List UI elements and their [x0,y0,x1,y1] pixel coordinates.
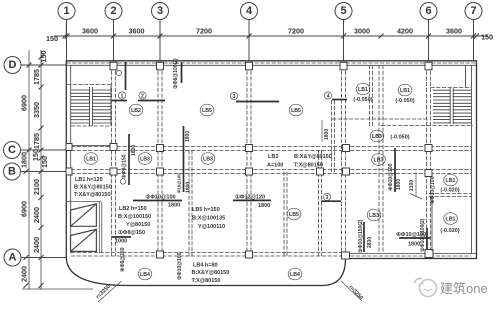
vertical line x=189 [188,150,190,256]
horizontal line y=113.1 [453,112,471,114]
svg-text:6900: 6900 [20,201,29,217]
grid bubble 6 [420,3,437,61]
horizontal line y=100.5 [138,100,165,102]
line (38.5,67.5)-(43.5,62.5) [39,63,44,68]
line (23.5,288)-(28.5,283) [24,283,29,288]
dim tick grid5a [379,34,384,39]
column at (245.5,251) [246,251,253,258]
horizontal line y=106.6 [453,106,471,108]
horizontal line y=90.2 [433,89,450,91]
outer wall perimeter [66,61,476,259]
grid bubble 3 [152,3,169,61]
vertical line x=394 [394,148,396,192]
vertical line x=383 [382,65,384,253]
column at (425,169.5) [425,170,432,177]
vertical line x=89.5 [89,87,91,126]
svg-text:1800: 1800 [186,182,192,193]
vertical line x=364 [363,222,365,252]
vertical line x=318.5 [318,150,320,256]
line (38.5,59.5)-(43.5,54.5) [39,55,44,60]
ramp shapes bottom-left [66,202,102,254]
column at (341.5,252) [342,252,350,259]
horizontal line y=193.5 [429,193,471,195]
line (38.5,288)-(43.5,283) [39,283,44,288]
column at (342.5,168) [343,168,350,175]
horizontal line y=84.5 [67,84,113,86]
svg-text:1: 1 [121,94,124,100]
horizontal line y=200.5 [133,200,182,202]
top dimension numbers [46,27,493,44]
horizontal line y=87.5 [431,87,472,89]
vertical line x=129 [128,134,130,185]
horizontal line y=116.4 [453,115,471,117]
column at (425,144.5) [425,145,432,152]
svg-text:LB3: LB3 [140,157,150,163]
svg-text:①Φ12@120: ①Φ12@120 [235,194,265,201]
horizontal line y=90 [93,89,112,91]
horizontal line y=116.4 [433,115,450,117]
grid bubble 4 [241,3,258,61]
svg-text:4: 4 [327,94,330,100]
horizontal line y=113.1 [433,112,450,114]
horizontal line y=201.5 [66,201,101,203]
horizontal line y=238 [399,237,430,239]
vertical line x=111.5 [111,65,113,256]
dim tick grid5 [341,34,346,39]
path [414,279,422,284]
column at (110,62.3) [110,62,117,70]
column at (340,62.3) [340,62,347,70]
grid bubble 2 [105,3,122,61]
svg-text:1800: 1800 [408,242,420,248]
svg-text:LB4 h=80: LB4 h=80 [193,263,218,269]
r=3250 labels [95,281,364,302]
column at (110,168) [110,168,117,175]
svg-text:LB2 h=150: LB2 h=150 [119,206,147,212]
horizontal line y=65.3 [66,64,476,66]
vertical line x=287 [286,172,288,257]
vertical line x=334.5 [334,100,336,172]
beam label LB1 slab oval 13 [444,174,458,186]
line (38.5,89.5)-(43.5,84.5) [39,85,44,90]
svg-text:150: 150 [46,34,58,43]
vertical line x=29 [28,50,30,290]
svg-text:LB5: LB5 [202,108,212,114]
svg-text:3: 3 [326,195,329,201]
horizontal line y=150.5 [71,150,471,152]
beam label LB3 slab oval 9 [138,153,152,165]
left dimension chains [22,50,93,290]
grid bubble 1 [58,3,75,61]
svg-text:1800: 1800 [324,129,330,140]
horizontal line y=109.8 [453,109,471,111]
svg-text:②Φ10@100: ②Φ10@100 [146,194,176,201]
beam label LB1 slab oval 8 [84,153,98,165]
svg-text:T:X&Y@80150: T:X&Y@80150 [74,192,111,198]
level notes [353,97,459,234]
vertical line x=111 [110,86,112,126]
horizontal line y=99.5 [332,99,347,101]
column at (156.5,251) [157,251,164,258]
left dimension numbers (rotated) [20,51,50,283]
column at (245.5,168) [246,168,253,175]
svg-text:1800: 1800 [20,152,29,168]
watermark [414,279,488,297]
circle at (328,95.5) [324,92,331,99]
svg-text:LB1: LB1 [86,157,96,163]
svg-text:1785: 1785 [32,69,41,85]
svg-text:4: 4 [246,5,253,17]
stair right [433,65,472,124]
column at (342.5,144.5) [343,145,350,152]
dim tick grid3 [158,34,163,39]
vertical line x=453.2 [452,88,454,124]
svg-text:LB1: LB1 [358,87,368,93]
svg-text:LB5: LB5 [291,108,301,114]
svg-text:4200: 4200 [397,27,413,36]
beam label LB4 slab oval 15 [138,268,152,280]
vertical line x=162 [161,65,163,256]
svg-text:2100: 2100 [32,179,41,195]
column at (156.5,144.5) [157,145,164,152]
svg-text:2830: 2830 [367,237,373,248]
circle at (327,197) [323,193,330,200]
svg-text:LB1: LB1 [445,217,455,223]
svg-text:A=100: A=100 [267,163,283,169]
beam label LB5 slab oval 11 [287,208,301,220]
path [424,289,432,291]
svg-text:1800: 1800 [185,131,191,142]
column at (66,143.5) [66,144,72,151]
beam label LB2 slab oval 1 [129,104,143,116]
svg-text:2: 2 [141,94,144,100]
path [71,229,97,251]
horizontal line y=122.9 [453,122,471,124]
horizontal line y=126 [71,125,111,127]
building outer wall [66,61,476,286]
horizontal line y=201.2 [321,200,341,202]
horizontal line y=289 [22,288,93,290]
svg-text:(-0.020): (-0.020) [440,228,459,234]
horizontal line y=237 [112,236,131,238]
svg-text:2400: 2400 [32,207,41,223]
svg-text:(-0.050): (-0.050) [353,97,372,103]
svg-text:A: A [9,252,17,264]
svg-text:1: 1 [63,5,69,17]
grid bubble 5 [335,3,352,61]
vertical line x=158 [157,65,159,256]
dim tick grid7 [471,34,476,39]
svg-text:1785: 1785 [32,133,41,149]
left dimension ticks [24,55,44,289]
vertical line x=247 [246,65,248,256]
svg-text:1800: 1800 [396,179,402,190]
path [71,204,97,227]
svg-text:LB4: LB4 [140,272,150,278]
svg-text:T:X@80150: T:X@80150 [294,163,323,169]
beam label LB1 slab oval 14 [444,213,458,225]
vertical line x=331.5 [331,100,333,172]
horizontal line y=109.8 [433,109,450,111]
svg-text:2400: 2400 [32,237,41,253]
svg-text:2100: 2100 [409,180,415,191]
grid bubble C [4,142,67,159]
column at (425,62.3) [425,62,432,70]
svg-text:LB3: LB3 [369,213,379,219]
svg-text:Y@80150: Y@80150 [126,222,150,228]
line (38.5,130.5)-(43.5,125.5) [39,126,44,131]
horizontal line y=100.5 [112,100,127,102]
svg-text:LB1: LB1 [445,178,455,184]
horizontal line y=256 [71,255,471,257]
vertical line x=345.5 [345,65,347,256]
svg-text:Φ10@100: Φ10@100 [177,173,182,193]
line (26.5,152.5)-(31.5,147.5) [27,148,32,153]
line (38.5,260)-(43.5,255) [39,255,44,260]
horizontal line y=93.5 [433,93,450,95]
dashed top of right lower room [67,85,471,197]
dim tick grid6 [426,34,431,39]
svg-text:B:X&Y@80150: B:X&Y@80150 [294,154,332,160]
line (341,281)-(362,301) [341,281,362,301]
svg-text:LB3: LB3 [373,158,383,164]
vertical line x=181.5 [181,62,183,83]
circle at (123,181.5) [120,179,125,184]
svg-text:3: 3 [233,94,236,100]
beam label LB5 slab oval 2 [200,104,214,116]
horizontal line y=200.4 [233,199,271,201]
beam label LB5 slab oval 3 [289,104,303,116]
line (26.5,67.5)-(31.5,62.5) [27,63,32,68]
horizontal line y=90.2 [453,89,471,91]
grid bubble A [4,249,66,266]
dim tick grid4 [247,34,252,39]
column at (245.5,62.3) [246,62,253,70]
horizontal line y=106.6 [433,106,450,108]
vertical line x=251 [250,65,252,256]
beam label LB3 slab oval 7 [372,154,386,166]
vertical line x=321.5 [321,150,323,256]
grid bubble B [4,163,67,180]
svg-text:D: D [9,59,17,71]
horizontal line y=252.5 [71,252,345,254]
vertical line x=284 [283,172,285,257]
beam label LB1 slab oval 5 [398,84,412,96]
top dimension line [54,24,488,41]
svg-text:150: 150 [40,156,49,168]
svg-text:(-0.050): (-0.050) [395,98,414,104]
line (38.5,200)-(43.5,195) [39,195,44,200]
vertical line x=369.5 [369,65,371,126]
circle at (122,95.5) [118,92,125,99]
vertical line x=471.5 [471,65,473,254]
path [419,283,424,285]
apron curved front [66,257,345,286]
beam label LB1 slab oval 4 [356,83,370,95]
vertical line x=70.7 [70,65,72,253]
vertical line x=341.5 [341,65,343,256]
svg-text:T:X@80150: T:X@80150 [192,278,221,284]
path [71,204,97,227]
horizontal line y=119.6 [453,119,471,121]
svg-text:5: 5 [340,5,346,17]
line (38.5,152.5)-(43.5,147.5) [39,148,44,153]
dim tick grid1 [65,34,70,39]
horizontal line y=196.5 [429,196,471,198]
svg-text:7200: 7200 [196,27,212,36]
svg-text:150: 150 [39,51,48,63]
svg-text:LB2: LB2 [131,108,141,114]
svg-text:②Φ10@100: ②Φ10@100 [177,252,183,280]
vertical line x=426.5 [426,65,428,253]
horizontal line y=100 [433,99,450,101]
horizontal line y=63 [67,62,477,64]
svg-text:3350: 3350 [32,102,41,118]
svg-text:LB1: LB1 [400,88,410,94]
vertical line x=192 [191,150,193,256]
vertical line x=430.5 [430,65,432,253]
vertical line x=432 [431,196,433,251]
svg-text:LB1 h=120: LB1 h=120 [75,177,103,183]
horizontal line y=96.7 [453,96,471,98]
line (23.5,260)-(28.5,255) [24,255,29,260]
svg-text:3600: 3600 [446,27,462,36]
svg-text:LB3: LB3 [268,154,278,160]
svg-text:3600: 3600 [82,27,98,36]
line (38.5,174)-(43.5,169) [39,169,44,174]
line (38.5,160.5)-(43.5,155.5) [39,156,44,161]
svg-text:1800: 1800 [168,203,180,209]
grid bubble D [4,57,66,74]
vertical line x=372.5 [372,65,374,126]
path [71,229,97,251]
dim tick grid2 [111,34,116,39]
building inner wall lines [66,65,476,254]
interior solid lines right block [431,196,433,251]
svg-text:LB3: LB3 [203,157,213,163]
svg-text:3600: 3600 [129,27,145,36]
line (38.5,230)-(43.5,225) [39,225,44,230]
beam label LB3 slab oval 10 [201,153,215,165]
horizontal line y=93.5 [453,93,471,95]
svg-text:①Φ8@150: ①Φ8@150 [118,229,145,236]
vertical line x=322 [321,120,323,142]
horizontal line y=103.3 [433,102,450,104]
svg-text:(-0.020): (-0.020) [440,188,459,194]
column at (156.5,62.3) [157,62,164,70]
circle at (428,288) [420,280,437,297]
horizontal line y=119 [332,118,428,120]
svg-text:B:X@100135: B:X@100135 [192,216,225,222]
column at (156.5,168) [157,168,164,175]
horizontal line y=146.5 [71,146,471,148]
beam label LB3 slab oval 6 [370,130,384,142]
columns at grid intersections [110,62,433,259]
svg-text:1800: 1800 [258,203,270,209]
vertical line x=183 [183,126,185,192]
svg-text:LB5: LB5 [289,212,299,218]
circle at (142.5,95.5) [139,92,146,99]
svg-text:④Φ10@100: ④Φ10@100 [430,176,436,204]
svg-text:6: 6 [425,5,431,17]
vertical line x=450.2 [449,88,451,124]
horizontal line y=96.7 [433,96,450,98]
vertical line x=92.5 [92,87,94,126]
horizontal line y=125.5 [381,125,473,127]
svg-text:LB5 h=150: LB5 h=150 [192,207,220,213]
svg-text:LB4: LB4 [290,272,300,278]
svg-text:②Φ10@150(2): ②Φ10@150(2) [358,219,364,253]
column at (425,249.5) [425,250,433,258]
extra columns on walls [66,144,117,176]
horizontal line y=253.5 [346,253,477,255]
horizontal line y=90 [71,89,90,91]
horizontal line y=100 [453,99,471,101]
svg-text:7: 7 [470,5,476,17]
svg-text:B: B [8,166,16,178]
svg-text:Y@100110: Y@100110 [198,224,225,230]
vertical line x=115.5 [115,65,117,256]
small interior dimension lines with 1800 [322,120,422,199]
line (121.5,281)-(98,302) [98,281,122,302]
svg-text:B:X&Y@80150: B:X&Y@80150 [74,185,112,191]
svg-text:7200: 7200 [288,27,304,36]
horizontal line y=122.9 [433,122,450,124]
horizontal line y=169.5 [71,169,471,171]
beam section thick marks [112,62,430,252]
grid bubble 7 [465,3,482,61]
dim tick wall edge right [474,34,479,39]
circle at (234,96) [230,92,237,99]
beam label LB4 slab oval 16 [288,268,302,280]
svg-text:④Φ10@100: ④Φ10@100 [388,163,394,191]
svg-text:B:X&Y@80150: B:X&Y@80150 [192,270,230,276]
vertical beam grid dashed pairs [112,65,431,256]
svg-text:③Φ8@150: ③Φ8@150 [122,154,128,179]
horizontal line y=119.6 [433,119,450,121]
column at (66,168) [66,168,72,175]
svg-text:2400: 2400 [20,266,29,282]
svg-text:(-0.050): (-0.050) [390,135,409,141]
vertical line x=125.5 [125,62,127,90]
vertical line x=41 [40,50,42,290]
svg-text:6900: 6900 [20,95,29,111]
vertical line x=66.3 [65,24,67,41]
rotated annotations [120,58,436,280]
horizontal line y=173.5 [71,173,471,175]
dimension tick 2100 [410,194,422,200]
vertical line x=99.3 [98,202,100,253]
beam label LB3 slab oval 12 [367,209,381,221]
svg-text:1800: 1800 [131,145,137,156]
vertical line x=379 [378,65,380,253]
vertical line x=416 [415,172,417,197]
dim tick at wall edge [63,34,68,39]
svg-text:①Φ10@100(2): ①Φ10@100(2) [420,218,426,252]
column at (316.5,168) [317,168,324,175]
svg-text:1000: 1000 [115,239,127,245]
vertical line x=427 [426,228,428,250]
svg-text:C: C [8,144,16,156]
column at (110,143.5) [110,144,117,151]
horizontal line y=101.5 [236,101,279,103]
svg-text:150: 150 [481,33,493,42]
horizontal line y=145.7 [71,145,110,147]
vertical line x=465.5 [465,65,467,88]
svg-text:3: 3 [157,5,163,17]
line (23.5,174)-(28.5,169) [24,169,29,174]
svg-text:2: 2 [110,5,116,17]
